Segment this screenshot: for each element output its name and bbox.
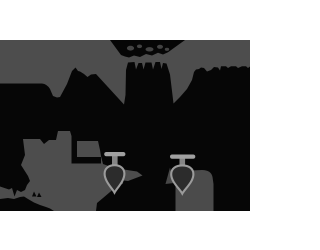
banner holes xyxy=(127,45,169,52)
gray wing right of sprinkler 1 xyxy=(124,170,143,182)
black mass (sea) xyxy=(0,62,250,211)
black bottom mound xyxy=(0,197,54,212)
gray slab bottom right xyxy=(176,170,214,211)
white page xyxy=(0,0,250,250)
gray photo band xyxy=(0,40,250,211)
sprinkler 2 xyxy=(170,155,195,194)
black banner xyxy=(110,40,185,58)
gray triangle left of sprinkler 2 xyxy=(166,168,175,185)
gray pocket lower-left xyxy=(0,131,124,211)
black pipe elbow xyxy=(72,136,102,164)
black nubs on mound xyxy=(32,192,42,198)
sprinkler 1 xyxy=(104,152,125,193)
